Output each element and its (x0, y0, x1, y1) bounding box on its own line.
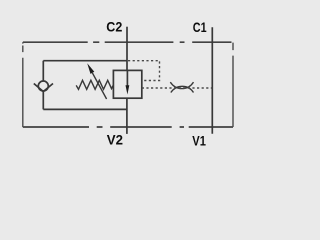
envelope left edge (dashed) (22, 42, 24, 127)
wire: left branch upper (to check valve) (42, 61, 44, 81)
check valve seat (34, 84, 53, 92)
svg-text:V1: V1 (192, 132, 206, 148)
wire: C2 port vertical (126, 27, 128, 71)
wire: left branch lower (check valve to bottom) (42, 91, 44, 109)
orifice upper arc (170, 82, 193, 89)
wire: V2 port vertical (126, 98, 128, 134)
svg-text:C1: C1 (193, 19, 207, 35)
envelope bottom edge (dashed) (23, 126, 233, 128)
check valve ball (38, 81, 48, 91)
wire: C1-V1 vertical (211, 27, 213, 134)
spring (adjustable zigzag) (76, 80, 113, 89)
poppet arrow line (126, 70, 128, 86)
valve box U1 (113, 70, 141, 98)
orifice lower arc (171, 86, 194, 92)
svg-text:C2: C2 (106, 18, 122, 34)
wire: inner loop top edge (43, 60, 127, 62)
svg-text:V2: V2 (107, 131, 123, 147)
adjustment arrowhead (87, 63, 94, 74)
poppet arrowhead (126, 85, 130, 94)
wire: bottom wire (43, 108, 127, 110)
envelope top edge (dashed) (23, 41, 232, 43)
envelope right edge (dashed) (232, 43, 234, 127)
pilot dotted line to C1 through orifice (142, 87, 213, 89)
pilot dotted rectangle from C2 junction (128, 61, 160, 81)
adjustment arrow line (92, 73, 106, 99)
